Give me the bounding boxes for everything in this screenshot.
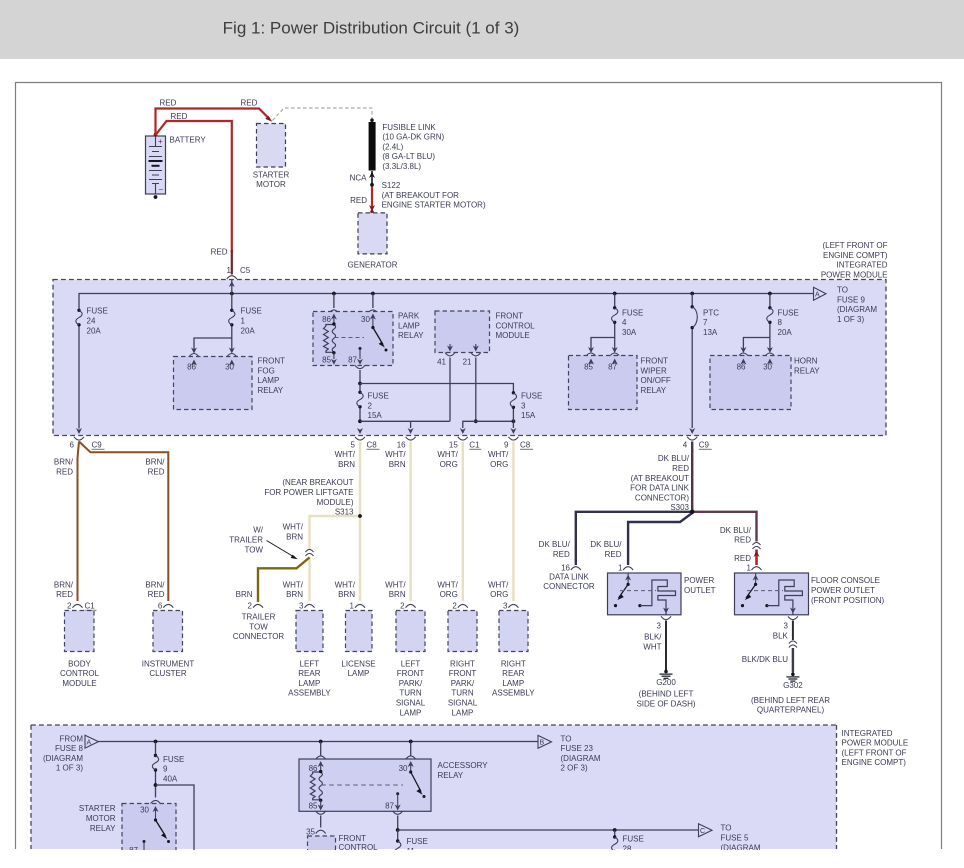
wire bus to accessory relay pins (316, 742, 416, 760)
pin 87 exit of accessory relay (393, 811, 403, 832)
wire fuse F3 to exit 9 (510, 421, 516, 434)
integrated power module (bottom) label (842, 729, 909, 767)
PTC 7 thermistor (689, 294, 719, 435)
pin 1 of floor console outlet (747, 564, 762, 573)
svg-text:ORG: ORG (440, 590, 458, 599)
svg-text:RED: RED (148, 590, 165, 599)
wire WHT/BRN pin 16 to left front lamp (409, 442, 411, 602)
svg-text:86: 86 (737, 363, 746, 372)
pin 3 of right rear lamp assembly (503, 601, 518, 610)
svg-text:REAR: REAR (298, 669, 320, 678)
wire DK BLU/RED S303 to data link connector (576, 512, 692, 565)
svg-text:RED: RED (148, 468, 165, 477)
pin 2 of trailer tow connector (248, 601, 263, 610)
fuse F2 (357, 384, 389, 422)
svg-text:LAMP: LAMP (348, 669, 370, 678)
svg-text:BRN/: BRN/ (145, 580, 165, 589)
svg-text:PARK/: PARK/ (399, 679, 423, 688)
power outlet P2 floor console box (735, 573, 809, 615)
svg-text:RED: RED (672, 464, 689, 473)
svg-text:2 OF 3): 2 OF 3) (561, 764, 588, 773)
svg-text:STARTER: STARTER (79, 804, 116, 813)
svg-text:BRN: BRN (338, 590, 355, 599)
wire RED S122 to generator (369, 187, 375, 214)
svg-text:5: 5 (351, 440, 356, 449)
data link connector label (543, 572, 595, 591)
svg-text:C1: C1 (469, 440, 480, 449)
pin 16 exit (397, 437, 416, 450)
svg-text:30: 30 (399, 764, 408, 773)
node S303 (690, 510, 695, 515)
svg-text:RED: RED (241, 99, 258, 108)
svg-text:PARK: PARK (398, 312, 420, 321)
svg-text:SIGNAL: SIGNAL (396, 699, 426, 708)
svg-text:16: 16 (561, 564, 570, 573)
wire label BRN/RED upper-left (54, 458, 74, 477)
wire label BLK/WHT (643, 633, 662, 652)
svg-text:WHT/: WHT/ (437, 450, 458, 459)
wire 87 branch to fuse F3 (360, 384, 513, 393)
relay K5 label (79, 804, 116, 833)
fuse F24 (76, 307, 108, 336)
svg-text:LAMP: LAMP (452, 708, 474, 717)
svg-text:A: A (87, 740, 92, 747)
svg-text:RED: RED (211, 248, 228, 257)
pin 5 C8 exit (351, 437, 380, 450)
svg-text:FUSE: FUSE (407, 837, 428, 846)
wire label DK BLU/ RED right (720, 526, 752, 545)
svg-text:GENERATOR: GENERATOR (348, 260, 398, 269)
wire WHT/ORG pin 9 C8 to right rear lamp (512, 442, 514, 602)
off-page arrow A label (837, 286, 877, 324)
pin 1 C5 entry (227, 266, 251, 294)
wire BRN/RED from pin 6 C9 to BCM (78, 442, 80, 602)
svg-text:1: 1 (350, 601, 355, 610)
svg-text:BRN/: BRN/ (145, 458, 165, 467)
svg-text:SIDE OF DASH): SIDE OF DASH) (636, 700, 695, 709)
wire label WHT/BRN pin16 top (385, 450, 406, 469)
svg-text:ORG: ORG (490, 590, 508, 599)
svg-text:3: 3 (521, 401, 526, 410)
svg-text:1 OF 3): 1 OF 3) (56, 764, 83, 773)
svg-text:2: 2 (368, 401, 373, 410)
svg-text:NCA: NCA (350, 173, 368, 182)
generator G1 (348, 213, 398, 269)
svg-text:PTC: PTC (703, 308, 719, 317)
pin 2 C1 of BCM (67, 601, 96, 610)
wire label BRN/RED lower-right (145, 580, 165, 599)
svg-text:4: 4 (683, 440, 688, 449)
svg-text:RELAY: RELAY (90, 824, 116, 833)
wire BLK/WHT to G200 (665, 621, 667, 671)
svg-text:1: 1 (241, 317, 246, 326)
wire DK BLU/RED S303 to power outlet (628, 513, 692, 565)
svg-text:FUSE: FUSE (87, 307, 108, 316)
svg-text:DK BLU/: DK BLU/ (720, 526, 752, 535)
svg-text:FRONT: FRONT (449, 669, 477, 678)
svg-text:(8 GA-LT BLU): (8 GA-LT BLU) (382, 152, 435, 161)
power outlet P2 label (811, 576, 885, 605)
svg-text:FRONT: FRONT (397, 669, 425, 678)
wire label DK BLU/RED and S303 (630, 454, 690, 512)
svg-text:PARK/: PARK/ (451, 679, 475, 688)
svg-text:86: 86 (322, 315, 331, 324)
svg-text:2: 2 (248, 601, 253, 610)
svg-text:S122: S122 (382, 181, 401, 190)
off-page arrow A from fuse 8 (85, 735, 99, 748)
svg-text:ORG: ORG (440, 460, 458, 469)
wire pin 41 down (449, 358, 451, 422)
svg-text:HORN: HORN (794, 357, 818, 366)
power outlet P2 internals (741, 573, 803, 615)
svg-text:1: 1 (618, 564, 623, 573)
svg-text:BRN: BRN (338, 460, 355, 469)
wire DK BLU/RED S303 right branch (692, 512, 756, 542)
svg-text:FUSE: FUSE (368, 392, 389, 401)
svg-text:(AT BREAKOUT FOR: (AT BREAKOUT FOR (382, 191, 460, 200)
svg-text:RIGHT: RIGHT (450, 659, 475, 668)
svg-text:RED: RED (56, 590, 73, 599)
svg-text:CONNECTOR): CONNECTOR) (635, 493, 689, 502)
svg-text:RED: RED (734, 554, 751, 563)
module M2 label (496, 312, 536, 341)
white clip below diagram (0, 850, 964, 868)
svg-text:C9: C9 (699, 440, 710, 449)
wire pin 21 down (474, 358, 478, 424)
pin 85 exit to front control module (306, 811, 326, 836)
exit arrows at bottom edge of IPM (76, 428, 363, 434)
svg-text:9: 9 (163, 765, 168, 774)
svg-text:RIGHT: RIGHT (501, 659, 526, 668)
svg-text:LAMP: LAMP (400, 708, 422, 717)
off-page arrow C to fuse 5 (699, 824, 713, 837)
svg-text:BLK/DK BLU: BLK/DK BLU (742, 655, 788, 664)
off-page arrow B to fuse 23 (538, 735, 552, 748)
svg-text:FRONT: FRONT (258, 357, 286, 366)
svg-text:ENGINE STARTER MOTOR): ENGINE STARTER MOTOR) (382, 201, 486, 210)
svg-text:ENGINE COMPT): ENGINE COMPT) (842, 758, 907, 767)
wire WHT/BRN S313 to trailer tow branch (310, 516, 361, 549)
wire label WHT/BRN at license lamp (335, 580, 356, 599)
svg-text:(AT BREAKOUT: (AT BREAKOUT (631, 474, 689, 483)
svg-text:C1: C1 (85, 601, 96, 610)
off-page arrow C label (721, 824, 761, 853)
svg-text:2: 2 (452, 601, 457, 610)
svg-text:CONTROL: CONTROL (496, 321, 536, 330)
svg-text:FRONT: FRONT (496, 312, 524, 321)
off-page arrow A from label (43, 734, 84, 772)
relay K2 label (398, 312, 424, 341)
svg-text:C8: C8 (367, 440, 378, 449)
svg-text:(BEHIND LEFT: (BEHIND LEFT (639, 690, 694, 699)
svg-text:WHT/: WHT/ (335, 580, 356, 589)
svg-text:QUARTERPANEL): QUARTERPANEL) (757, 706, 825, 715)
svg-text:INSTRUMENT: INSTRUMENT (142, 659, 195, 668)
wire label WHT/BRN top (335, 450, 356, 469)
svg-text:TRAILER: TRAILER (242, 613, 276, 622)
wire label WHT/BRN branch (283, 523, 304, 542)
wire RED connector to floor console outlet (754, 550, 760, 566)
svg-text:20A: 20A (241, 326, 256, 335)
lamp L5 right rear lamp assembly (492, 611, 535, 698)
wire fuse F8 to horn relay (738, 338, 775, 357)
bus wire (bottom box) (99, 741, 539, 743)
relay K5 starter motor relay (122, 804, 176, 864)
node below fuse F9 (154, 783, 158, 787)
ground G302 (786, 673, 799, 682)
svg-text:7: 7 (703, 318, 708, 327)
svg-text:FOG: FOG (258, 366, 275, 375)
svg-text:RELAY: RELAY (258, 386, 284, 395)
lamp L4 right front park/turn signal lamp (448, 611, 478, 718)
svg-text:ORG: ORG (490, 460, 508, 469)
title header bar (0, 0, 964, 59)
starter motor M1 (253, 124, 290, 190)
svg-text:RELAY: RELAY (794, 366, 820, 375)
wire exit 15 to fuse F3 bottom (460, 419, 516, 434)
svg-text:16: 16 (397, 440, 406, 449)
wire BLK/DK BLU to G302 (792, 648, 794, 673)
svg-text:TOW: TOW (249, 622, 268, 631)
svg-text:85: 85 (309, 802, 318, 811)
svg-text:CONNECTOR: CONNECTOR (233, 632, 285, 641)
wire fuse F4 to front wiper relay (586, 338, 620, 357)
wire label WHT/ORG pin15 top (437, 450, 458, 469)
svg-text:BRN/: BRN/ (54, 580, 74, 589)
svg-text:TURN: TURN (451, 689, 473, 698)
wire RED battery to starter motor (156, 109, 273, 136)
svg-text:(2.4L): (2.4L) (382, 142, 403, 151)
node S313 label (264, 478, 354, 516)
svg-text:MODULE): MODULE) (317, 498, 354, 507)
svg-text:WHT/: WHT/ (437, 580, 458, 589)
fusible link F1 (369, 118, 376, 170)
relay K2 park lamp relay (313, 312, 393, 366)
module M2 front control module (435, 311, 490, 356)
svg-text:WHT/: WHT/ (335, 450, 356, 459)
pin 3 of floor console outlet (783, 616, 797, 630)
svg-text:LICENSE: LICENSE (341, 659, 375, 668)
pin 3 of left rear lamp assembly (299, 601, 314, 610)
svg-text:WIPER: WIPER (641, 366, 667, 375)
node S313 (358, 514, 362, 518)
svg-text:C: C (700, 828, 705, 835)
module M3 body control module (60, 611, 100, 688)
svg-text:FUSE: FUSE (241, 307, 262, 316)
svg-text:ENGINE COMPT): ENGINE COMPT) (823, 251, 888, 260)
wire fuse F2 / pin41 to exit 16 (360, 421, 450, 434)
svg-text:BRN: BRN (236, 590, 253, 599)
svg-text:LAMP: LAMP (258, 376, 280, 385)
svg-text:RED: RED (56, 468, 73, 477)
node below fuse F2 (358, 419, 362, 423)
pin 9 C8 exit (504, 437, 533, 450)
wire DK BLU/RED pin 4 C9 to S303 (691, 442, 693, 512)
svg-text:13A: 13A (703, 328, 718, 337)
svg-text:BLK/: BLK/ (644, 633, 662, 642)
svg-text:CONNECTOR: CONNECTOR (543, 582, 595, 591)
svg-text:LAMP: LAMP (299, 679, 321, 688)
svg-text:FUSE 9: FUSE 9 (837, 295, 866, 304)
svg-text:FUSE: FUSE (521, 392, 542, 401)
svg-text:RELAY: RELAY (398, 331, 424, 340)
wire fuse F1 to front fog lamp relay (189, 338, 237, 357)
wire bus to park lamp relay pins (329, 294, 378, 314)
svg-text:BRN: BRN (389, 590, 406, 599)
power outlet P1 label (684, 576, 716, 595)
svg-text:(10 GA-DK GRN): (10 GA-DK GRN) (382, 133, 444, 142)
svg-text:DK BLU/: DK BLU/ (539, 540, 571, 549)
ground G200 (660, 670, 673, 679)
svg-text:3: 3 (299, 601, 304, 610)
svg-text:POWER OUTLET: POWER OUTLET (811, 586, 875, 595)
fuse F1 (229, 294, 262, 339)
svg-text:WHT/: WHT/ (283, 580, 304, 589)
node S122 (370, 183, 374, 187)
svg-text:FUSE: FUSE (622, 308, 643, 317)
svg-text:FUSE 8: FUSE 8 (55, 744, 84, 753)
svg-text:WHT/: WHT/ (488, 580, 509, 589)
svg-text:85: 85 (584, 363, 593, 372)
bus wire (top box) (79, 294, 814, 429)
svg-text:FRONT: FRONT (641, 357, 669, 366)
svg-text:BRN: BRN (389, 460, 406, 469)
svg-text:BRN: BRN (286, 533, 303, 542)
pin 2 of right front park lamp (452, 601, 467, 610)
arrow from label to connector (267, 541, 298, 560)
wire label DK BLU/ RED mid (590, 540, 622, 559)
wire label BRN/RED upper-right (145, 458, 165, 477)
svg-text:1: 1 (227, 266, 232, 275)
pin 4 C9 exit (683, 437, 712, 450)
svg-text:FUSE: FUSE (163, 755, 184, 764)
pin 2 of left front park lamp (400, 601, 415, 610)
pin 6 C9 exit (70, 437, 105, 450)
svg-text:−: − (159, 185, 164, 194)
svg-text:WHT/: WHT/ (283, 523, 304, 532)
svg-text:TURN: TURN (399, 689, 421, 698)
label W/ TRAILER TOW (229, 526, 264, 555)
svg-text:9: 9 (504, 440, 509, 449)
wire branch right from fuse F9 (156, 785, 195, 852)
svg-text:(LEFT FRONT OF: (LEFT FRONT OF (822, 241, 887, 250)
svg-text:INTEGRATED: INTEGRATED (837, 261, 888, 270)
node junctions on bus (230, 292, 772, 296)
wire NCA starter motor to fusible link (dashed) (273, 108, 373, 121)
svg-text:RELAY: RELAY (641, 386, 667, 395)
svg-text:(FRONT POSITION): (FRONT POSITION) (811, 596, 885, 605)
svg-text:WHT/: WHT/ (385, 580, 406, 589)
wire label WHT/BRN pin16 bottom (385, 580, 406, 599)
node at fuse F28 (613, 828, 617, 832)
svg-text:(DIAGRAM: (DIAGRAM (837, 305, 877, 314)
svg-text:WHT/: WHT/ (488, 450, 509, 459)
svg-text:INTEGRATED: INTEGRATED (842, 729, 893, 738)
svg-text:(DIAGRAM: (DIAGRAM (561, 754, 601, 763)
svg-text:8: 8 (778, 318, 783, 327)
svg-text:35: 35 (306, 827, 315, 836)
relay K4 horn relay (710, 356, 791, 410)
power outlet P1 internals (614, 573, 676, 615)
svg-text:6: 6 (158, 601, 163, 610)
inline connector on ground wire (789, 641, 797, 648)
svg-text:BLK: BLK (773, 632, 789, 641)
svg-text:FOR DATA LINK: FOR DATA LINK (630, 484, 689, 493)
svg-text:FROM: FROM (59, 734, 83, 743)
svg-text:30: 30 (225, 363, 234, 372)
svg-text:4: 4 (622, 318, 627, 327)
pin 15 C1 exit (449, 437, 481, 450)
svg-text:TO: TO (561, 734, 572, 743)
svg-text:C9: C9 (92, 440, 103, 449)
integrated power module box (bottom) (31, 725, 837, 849)
svg-text:SIGNAL: SIGNAL (448, 699, 478, 708)
svg-text:1 OF 3): 1 OF 3) (837, 315, 864, 324)
off-page arrow A to fuse 9 (814, 287, 827, 300)
svg-text:1: 1 (747, 564, 752, 573)
ground G302 label (751, 681, 830, 715)
battery B1 (146, 133, 166, 199)
svg-text:REAR: REAR (502, 669, 524, 678)
svg-text:6: 6 (70, 440, 75, 449)
svg-text:FUSIBLE LINK: FUSIBLE LINK (382, 123, 436, 132)
svg-text:POWER MODULE: POWER MODULE (821, 270, 888, 279)
svg-text:(BEHIND LEFT REAR: (BEHIND LEFT REAR (751, 696, 830, 705)
svg-text:30: 30 (140, 806, 149, 815)
wire WHT/ORG pin 15 C1 to right front lamp (462, 442, 464, 602)
svg-text:15: 15 (449, 440, 458, 449)
relay K3 label (641, 357, 671, 395)
svg-text:FUSE: FUSE (623, 835, 644, 844)
svg-text:FUSE: FUSE (778, 308, 799, 317)
svg-text:TRAILER: TRAILER (229, 536, 263, 545)
wire label DK BLU/ RED left (539, 540, 571, 559)
svg-text:86: 86 (309, 764, 318, 773)
pin 1 of power outlet (618, 564, 633, 573)
svg-text:2: 2 (400, 601, 405, 610)
svg-text:15A: 15A (368, 411, 383, 420)
svg-text:2: 2 (67, 601, 72, 610)
svg-text:LEFT: LEFT (300, 659, 320, 668)
svg-text:20A: 20A (778, 328, 793, 337)
svg-text:24: 24 (87, 317, 96, 326)
inline connector on trailer tow branch (306, 550, 314, 557)
wire label BRN/RED lower-left (54, 580, 74, 599)
svg-text:LAMP: LAMP (502, 679, 524, 688)
svg-text:RED: RED (605, 550, 622, 559)
relay K4 label (794, 357, 820, 376)
svg-text:BRN: BRN (286, 590, 303, 599)
lamp L1 left rear lamp assembly (288, 611, 331, 698)
wire WHT/BRN connector to left rear lamp (308, 557, 310, 602)
svg-text:3: 3 (657, 622, 662, 631)
module M4 instrument cluster (142, 611, 195, 679)
svg-text:3: 3 (783, 622, 788, 631)
svg-text:B: B (540, 740, 545, 747)
wire label WHT/ORG pin9 bottom (488, 580, 509, 599)
svg-text:DK BLU/: DK BLU/ (590, 540, 622, 549)
svg-text:(NEAR BREAKOUT: (NEAR BREAKOUT (282, 478, 353, 487)
svg-text:MODULE: MODULE (496, 331, 530, 340)
relay K1 label (258, 357, 286, 395)
svg-text:(3.3L/3.8L): (3.3L/3.8L) (382, 162, 421, 171)
lamp L3 left front park/turn signal lamp (396, 611, 426, 718)
fusible link label (382, 123, 444, 171)
svg-text:TOW: TOW (244, 545, 263, 554)
svg-text:(LEFT FRONT OF: (LEFT FRONT OF (842, 748, 907, 757)
pin 3 of power outlet (657, 616, 671, 630)
off-page arrow B label (561, 734, 601, 772)
